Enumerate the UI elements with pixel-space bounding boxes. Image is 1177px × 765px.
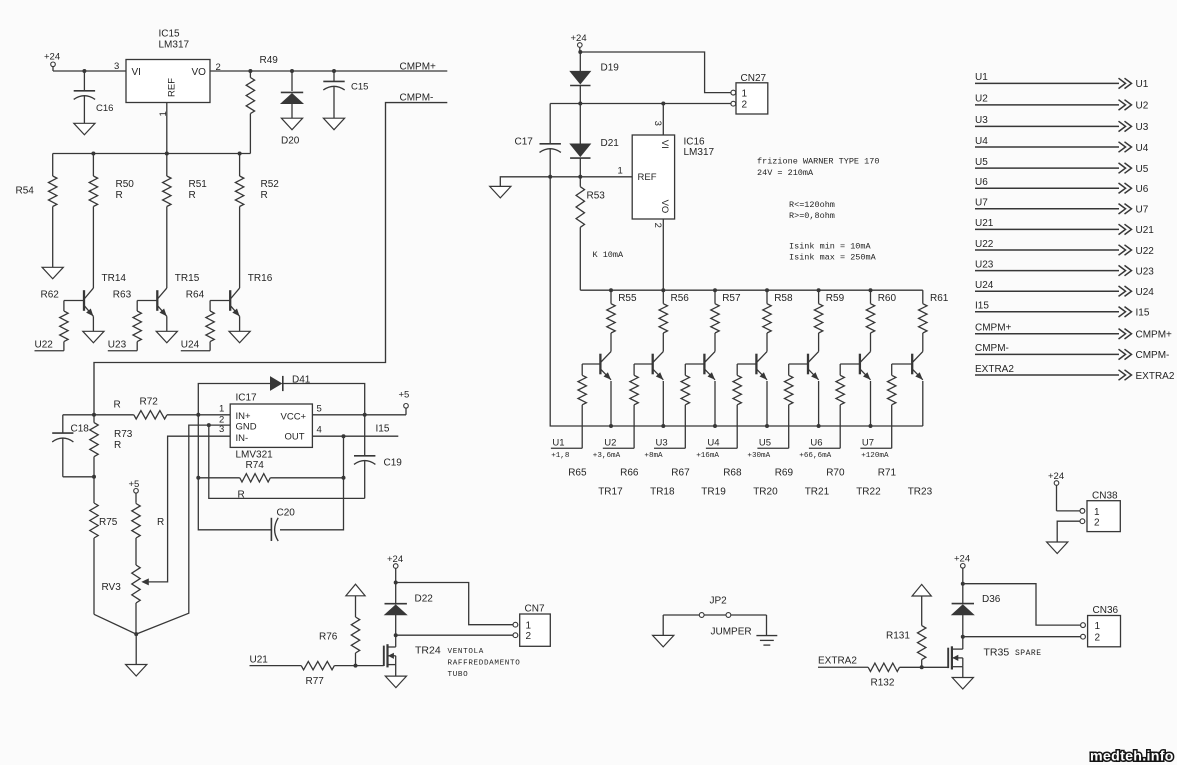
svg-text:Isink min = 10mA: Isink min = 10mA (789, 242, 872, 252)
svg-text:R: R (189, 190, 196, 201)
svg-text:R68: R68 (723, 468, 742, 479)
svg-text:TR21: TR21 (805, 487, 830, 498)
svg-text:D19: D19 (601, 63, 620, 74)
regulator IC16 LM317 (632, 135, 674, 219)
junction (394, 633, 398, 637)
svg-text:IC16: IC16 (684, 137, 706, 148)
svg-text:VI: VI (132, 67, 141, 78)
wire bias bus (53, 153, 251, 155)
wire (64, 300, 84, 302)
junction (661, 424, 665, 428)
svg-text:R70: R70 (826, 468, 845, 479)
svg-text:VENTOLA: VENTOLA (448, 648, 484, 656)
wire (239, 287, 241, 289)
svg-text:U2: U2 (1136, 101, 1149, 112)
svg-text:D21: D21 (601, 138, 620, 149)
svg-text:I15: I15 (975, 301, 989, 312)
svg-text:U3: U3 (1136, 122, 1149, 133)
svg-text:U21: U21 (1136, 225, 1155, 236)
ground (74, 123, 95, 135)
svg-text:IC15: IC15 (159, 29, 181, 40)
svg-text:U24: U24 (1136, 287, 1155, 298)
junction (961, 635, 965, 639)
wire to CN27 pin 1 (580, 52, 731, 93)
svg-text:D22: D22 (415, 594, 434, 605)
connector CN27 (736, 83, 768, 114)
wire (395, 665, 397, 677)
diode D36 (962, 584, 964, 604)
ground (653, 635, 674, 647)
svg-text:EXTRA2: EXTRA2 (1136, 371, 1175, 382)
svg-text:4: 4 (317, 425, 322, 436)
svg-text:R59: R59 (826, 293, 845, 304)
wire (962, 667, 964, 678)
wire (395, 635, 397, 647)
resistor R49 (249, 71, 251, 78)
junction (165, 152, 169, 156)
ground (1047, 542, 1068, 554)
svg-text:1: 1 (219, 404, 224, 415)
svg-text:1: 1 (742, 88, 748, 99)
svg-text:EXTRA2: EXTRA2 (975, 364, 1014, 375)
svg-text:+16mA: +16mA (696, 452, 719, 460)
capacitor C15 (333, 71, 335, 81)
wire (818, 381, 820, 426)
svg-text:VI: VI (659, 140, 670, 149)
connector CN7 (520, 614, 551, 646)
svg-text:CMPM+: CMPM+ (400, 61, 437, 72)
junction (354, 664, 358, 668)
svg-text:U24: U24 (181, 340, 200, 351)
wire (870, 381, 872, 426)
capacitor C18 (62, 415, 64, 433)
junction (869, 424, 873, 428)
svg-text:U24: U24 (975, 280, 994, 291)
wire (197, 415, 199, 478)
connector CN38 (1087, 501, 1120, 532)
svg-text:C19: C19 (384, 458, 403, 469)
junction (196, 413, 200, 417)
svg-text:D20: D20 (281, 136, 300, 147)
svg-text:+1,8: +1,8 (551, 452, 570, 460)
svg-text:U23: U23 (108, 340, 127, 351)
junction (248, 69, 252, 73)
svg-text:+24: +24 (44, 52, 60, 63)
junction (91, 152, 95, 156)
resistor R53 (579, 177, 581, 187)
resistor R75 (93, 477, 95, 503)
capacitor C17 (549, 104, 551, 144)
ground (323, 118, 344, 130)
svg-text:R75: R75 (99, 517, 118, 528)
resistor R65 (581, 364, 583, 375)
svg-text:+3,6mA: +3,6mA (593, 452, 621, 460)
svg-text:R65: R65 (568, 468, 587, 479)
junction (82, 69, 86, 73)
junction (92, 413, 96, 417)
wire (550, 103, 731, 105)
svg-text:R53: R53 (587, 191, 606, 202)
power +5 terminal (405, 408, 407, 415)
junction (713, 424, 717, 428)
svg-text:+5: +5 (399, 389, 410, 400)
svg-text:VO: VO (659, 200, 670, 214)
svg-text:CMPM-: CMPM- (1136, 350, 1170, 361)
svg-text:U6: U6 (1136, 184, 1149, 195)
svg-text:R52: R52 (261, 179, 280, 190)
svg-text:R55: R55 (618, 293, 637, 304)
svg-text:R: R (116, 190, 123, 201)
svg-text:U3: U3 (656, 438, 668, 449)
junction (548, 175, 552, 179)
svg-text:CN27: CN27 (741, 73, 767, 84)
junction (869, 288, 873, 292)
svg-text:+8mA: +8mA (644, 452, 663, 460)
diode D19 (579, 52, 581, 71)
svg-text:K 10mA: K 10mA (593, 250, 625, 260)
svg-text:U1: U1 (552, 438, 564, 449)
wire (334, 665, 383, 667)
svg-text:I15: I15 (1136, 308, 1150, 319)
svg-text:TR22: TR22 (856, 487, 881, 498)
svg-text:U3: U3 (975, 115, 988, 126)
arrow up (off-page) (346, 584, 365, 596)
resistor R63 (136, 301, 138, 312)
svg-text:U22: U22 (975, 239, 994, 250)
resistor R67 (684, 364, 686, 375)
diode D41 (198, 384, 270, 415)
ground (490, 186, 511, 198)
wire (63, 414, 134, 416)
wire (135, 634, 137, 664)
wire (789, 363, 808, 365)
transistor TR35 (MOSFET) (947, 648, 949, 668)
wire OUT / node I15 (312, 435, 398, 437)
resistor R72 (133, 414, 135, 416)
resistor R61 (922, 290, 924, 304)
transistor TR16 (229, 290, 231, 311)
wire (662, 615, 664, 635)
wire (731, 614, 767, 616)
resistor R70 (839, 364, 841, 375)
resistor R (pot feed) (135, 502, 137, 503)
svg-text:OUT: OUT (285, 432, 305, 443)
transistor TR15 (156, 290, 158, 311)
resistor R59 (818, 290, 820, 304)
junction (290, 69, 294, 73)
svg-text:TUBO: TUBO (448, 671, 469, 679)
svg-text:R77: R77 (306, 676, 325, 687)
svg-text:R69: R69 (775, 468, 794, 479)
junction (578, 102, 582, 106)
svg-text:TR35: TR35 (984, 647, 1010, 659)
svg-text:R<=120ohm: R<=120ohm (789, 200, 835, 210)
svg-text:U2: U2 (975, 94, 988, 105)
svg-text:+24: +24 (954, 554, 970, 565)
junction (92, 475, 96, 479)
junction (765, 288, 769, 292)
wire (766, 615, 768, 636)
wire (662, 381, 664, 426)
diode D21 (579, 104, 581, 144)
svg-text:VO: VO (192, 67, 207, 78)
svg-text:U1: U1 (975, 72, 988, 83)
wire (167, 414, 230, 416)
svg-text:RV3: RV3 (102, 582, 122, 593)
resistor R60 (870, 290, 872, 304)
svg-text:U2: U2 (604, 438, 616, 449)
svg-text:frizione WARNER TYPE 170: frizione WARNER TYPE 170 (757, 157, 879, 167)
wire IN- to potentiometer wiper (149, 436, 231, 582)
svg-text:R54: R54 (16, 186, 35, 197)
svg-text:U22: U22 (35, 340, 54, 351)
resistor R76 (355, 596, 357, 617)
svg-text:1: 1 (526, 621, 532, 632)
earth ground (756, 635, 777, 637)
junction (196, 476, 200, 480)
resistor R69 (788, 364, 790, 375)
svg-text:R49: R49 (260, 55, 279, 66)
svg-text:D41: D41 (292, 375, 311, 386)
wire (840, 363, 860, 365)
wire (53, 70, 126, 72)
svg-text:C20: C20 (277, 508, 296, 519)
junction (134, 632, 138, 636)
svg-text:R: R (238, 490, 245, 501)
svg-text:U22: U22 (1136, 246, 1155, 257)
wire (922, 381, 924, 426)
resistor R54 (52, 154, 54, 177)
transistor TR24 (MOSFET) (383, 646, 385, 666)
wire (500, 177, 550, 187)
ground (952, 678, 973, 690)
svg-text:IN+: IN+ (236, 411, 252, 422)
svg-text:I15: I15 (376, 424, 390, 435)
svg-text:Isink max = 250mA: Isink max = 250mA (789, 253, 877, 263)
wire (900, 666, 949, 668)
transistor TR19 (703, 354, 705, 375)
svg-text:U23: U23 (975, 259, 994, 270)
resistor R62 (63, 301, 65, 312)
svg-text:TR19: TR19 (701, 487, 726, 498)
svg-text:+120mA: +120mA (861, 452, 889, 460)
svg-text:CMPM-: CMPM- (975, 343, 1009, 354)
ground (156, 331, 177, 343)
resistor R73 (93, 415, 95, 423)
svg-text:U4: U4 (707, 438, 719, 449)
svg-text:5: 5 (317, 404, 322, 415)
resistor R58 (766, 290, 768, 304)
ground (385, 676, 406, 688)
svg-text:medteh.info: medteh.info (1090, 749, 1174, 765)
svg-text:+66,6mA: +66,6mA (799, 452, 831, 460)
wire (634, 363, 653, 365)
svg-text:U5: U5 (759, 438, 771, 449)
ground (83, 331, 104, 343)
svg-text:REF: REF (638, 172, 657, 183)
svg-text:U7: U7 (975, 198, 988, 209)
svg-text:SPARE: SPARE (1015, 649, 1042, 658)
wire (582, 363, 600, 365)
svg-text:D36: D36 (982, 594, 1001, 605)
wire GND pin down to ground (136, 425, 230, 634)
op-amp IC17 LMV321 (230, 404, 312, 447)
svg-text:TR18: TR18 (650, 487, 675, 498)
wire (92, 287, 94, 289)
wire (663, 614, 699, 616)
svg-text:TR17: TR17 (598, 487, 623, 498)
svg-text:R76: R76 (319, 632, 338, 643)
svg-text:3: 3 (652, 121, 663, 126)
junction (609, 424, 613, 428)
svg-text:U21: U21 (250, 655, 269, 666)
resistor R132 (867, 666, 869, 668)
wire (166, 287, 168, 289)
svg-text:R73: R73 (114, 429, 133, 440)
wire (137, 300, 157, 302)
resistor R50 (92, 154, 94, 177)
svg-text:R61: R61 (930, 293, 949, 304)
svg-text:2: 2 (526, 631, 532, 642)
svg-text:U4: U4 (1136, 143, 1149, 154)
wire (210, 300, 230, 302)
wire (737, 363, 756, 365)
svg-text:LMV321: LMV321 (236, 450, 274, 461)
svg-text:JP2: JP2 (710, 596, 728, 607)
svg-text:C15: C15 (351, 81, 368, 92)
svg-text:JUMPER: JUMPER (711, 627, 752, 638)
wire (892, 363, 913, 365)
svg-text:R: R (157, 517, 164, 528)
svg-text:R64: R64 (186, 290, 205, 301)
transistor TR20 (755, 354, 757, 375)
svg-text:R: R (261, 190, 268, 201)
transistor TR21 (807, 354, 809, 375)
svg-text:R63: R63 (113, 290, 132, 301)
junction (817, 288, 821, 292)
svg-text:U1: U1 (1136, 79, 1149, 90)
pin 2 (VO) (662, 219, 664, 290)
diode D22 (395, 583, 397, 604)
wire to CN36 pin 2 (963, 636, 1081, 638)
wire (94, 614, 136, 634)
junction (961, 582, 965, 586)
svg-text:R51: R51 (189, 179, 208, 190)
svg-text:U5: U5 (1136, 164, 1149, 175)
resistor R71 (891, 364, 893, 375)
wire to CN7 pin 2 (396, 634, 513, 636)
svg-text:R>=0,8ohm: R>=0,8ohm (789, 211, 835, 221)
svg-text:+30mA: +30mA (747, 452, 770, 460)
junction (661, 288, 665, 292)
svg-text:IC17: IC17 (236, 393, 258, 404)
junction (817, 424, 821, 428)
svg-text:IN-: IN- (236, 433, 249, 444)
wire (714, 381, 716, 426)
svg-text:R74: R74 (246, 460, 265, 471)
svg-text:R132: R132 (871, 678, 895, 689)
junction (578, 175, 582, 179)
junction (342, 476, 346, 480)
resistor R74 (198, 477, 240, 479)
svg-text:R58: R58 (774, 293, 793, 304)
junction (332, 69, 336, 73)
svg-text:GND: GND (236, 422, 257, 433)
svg-text:CN36: CN36 (1093, 605, 1119, 616)
svg-text:1: 1 (1095, 621, 1101, 632)
resistor R57 (714, 290, 716, 304)
svg-text:U6: U6 (975, 177, 988, 188)
svg-text:CN7: CN7 (525, 604, 545, 615)
transistor TR17 (599, 354, 601, 375)
svg-text:3: 3 (114, 61, 119, 72)
resistor R55 (610, 290, 612, 304)
svg-text:R131: R131 (886, 631, 910, 642)
svg-text:LM317: LM317 (684, 147, 715, 158)
resistor R51 (166, 154, 168, 177)
svg-text:TR20: TR20 (753, 487, 778, 498)
svg-text:2: 2 (1095, 632, 1101, 643)
svg-text:EXTRA2: EXTRA2 (818, 656, 857, 667)
resistor R131 (921, 596, 923, 626)
junction (207, 423, 211, 427)
svg-text:+5: +5 (129, 479, 140, 490)
wire (1057, 510, 1080, 512)
junction (238, 152, 242, 156)
svg-text:C16: C16 (96, 103, 113, 114)
wire (685, 363, 704, 365)
junction (713, 288, 717, 292)
ground (42, 267, 63, 279)
junction (363, 413, 367, 417)
svg-text:CN38: CN38 (1092, 491, 1118, 502)
svg-text:R60: R60 (878, 293, 897, 304)
junction (342, 434, 346, 438)
transistor TR22 (859, 354, 861, 375)
svg-text:U21: U21 (975, 218, 994, 229)
wire cathode rail (550, 177, 923, 426)
resistor R68 (736, 364, 738, 375)
wire to CN36 pin 1 (963, 584, 1081, 625)
svg-text:C17: C17 (515, 137, 534, 148)
svg-text:R66: R66 (620, 468, 639, 479)
svg-text:R50: R50 (116, 179, 135, 190)
svg-text:TR24: TR24 (415, 645, 441, 657)
wire K rail (580, 289, 923, 291)
svg-text:C18: C18 (71, 424, 90, 435)
junction (609, 288, 613, 292)
wire VCC+ (312, 414, 406, 416)
potentiometer RV3 (135, 551, 137, 565)
ground (126, 665, 147, 677)
resistor R64 (209, 301, 211, 312)
svg-text:RAFFREDDAMENTO: RAFFREDDAMENTO (448, 660, 521, 668)
svg-text:R67: R67 (671, 468, 690, 479)
wire (209, 425, 365, 498)
svg-text:+24: +24 (571, 33, 587, 44)
transistor TR14 (83, 290, 85, 311)
wire to CN7 pin 1 (396, 583, 513, 625)
junction (920, 665, 924, 669)
wire REF (550, 176, 632, 178)
transistor TR18 (652, 354, 654, 375)
capacitor C19 (364, 415, 366, 456)
transistor TR23 (911, 354, 913, 375)
svg-text:2: 2 (742, 100, 748, 111)
wire (1057, 521, 1079, 542)
junction (394, 581, 398, 585)
junction (661, 102, 665, 106)
